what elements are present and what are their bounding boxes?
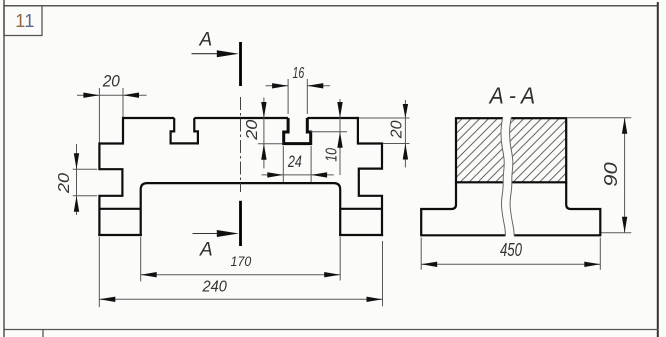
svg-text:90: 90 [601, 162, 621, 187]
dimension 450 extension lines [421, 238, 600, 270]
front view top edge [123, 117, 358, 119]
dimension 24 extension lines [283, 146, 311, 182]
section view hatched column [456, 118, 566, 182]
vertical centerline [240, 97, 242, 192]
sheet frame bottom border [3, 329, 658, 331]
right foot bottom edge [339, 234, 383, 236]
svg-text:A: A [199, 240, 213, 261]
dimension 90 extension lines [568, 118, 632, 233]
dimension 20 right side [404, 100, 406, 167]
front view left stepped profile [99, 117, 123, 236]
T-slot 1 [171, 118, 198, 143]
dimension 20 top-left extension lines [99, 88, 123, 143]
svg-text:A: A [199, 30, 213, 51]
break band white fill [501, 116, 514, 236]
sheet frame right border [657, 2, 659, 337]
svg-text:A - A: A - A [488, 82, 535, 108]
dimension 24 [262, 174, 334, 176]
dimension 240 extension lines [99, 237, 382, 307]
sheet frame left border [3, 0, 5, 337]
dimension 20 right side extension lines [359, 118, 410, 144]
dimension 240 [99, 298, 382, 300]
front view right stepped profile [358, 117, 382, 236]
svg-text:240: 240 [202, 278, 227, 295]
svg-text:170: 170 [231, 253, 252, 269]
title block divider tick [42, 330, 44, 337]
svg-text:20: 20 [388, 120, 405, 139]
left foot bottom edge [98, 234, 142, 236]
inner contour with rounded corners [141, 183, 341, 236]
dimension 20 slot depth extension line [258, 143, 282, 145]
dimension 450 [421, 263, 600, 265]
dimension 10 extension line [311, 131, 347, 133]
section line mark bottom [239, 201, 242, 246]
dimension 16 [266, 85, 331, 87]
dimension 10 [339, 99, 341, 175]
sheet number box [4, 6, 42, 36]
svg-text:10: 10 [324, 148, 341, 162]
left foot shoulder line [99, 208, 140, 210]
section arrow top [192, 53, 221, 55]
dimension 90 [624, 118, 626, 233]
right foot shoulder line [340, 208, 382, 210]
svg-text:16: 16 [293, 65, 305, 82]
dimension 20 slot depth [263, 98, 265, 169]
dimension 170 extension lines [141, 237, 341, 281]
break wavy line left [501, 117, 506, 236]
dimension 20 top-left [77, 94, 147, 96]
section arrow bottom [193, 233, 221, 235]
dimension 16 extension lines [288, 79, 307, 114]
break wavy line right [509, 117, 514, 236]
svg-text:11: 11 [15, 11, 35, 31]
svg-text:450: 450 [500, 240, 522, 260]
svg-text:20: 20 [102, 71, 120, 90]
dimension 170 [141, 274, 341, 276]
section view base outline [421, 182, 600, 235]
svg-text:20: 20 [244, 120, 261, 141]
dimension 20 left side extension lines [73, 169, 97, 196]
sheet frame top border [3, 5, 658, 7]
T-slot 2 [284, 118, 311, 144]
dimension 20 left side [76, 144, 78, 215]
section line mark A top [239, 42, 242, 86]
svg-text:24: 24 [287, 152, 302, 171]
svg-text:20: 20 [56, 173, 73, 194]
